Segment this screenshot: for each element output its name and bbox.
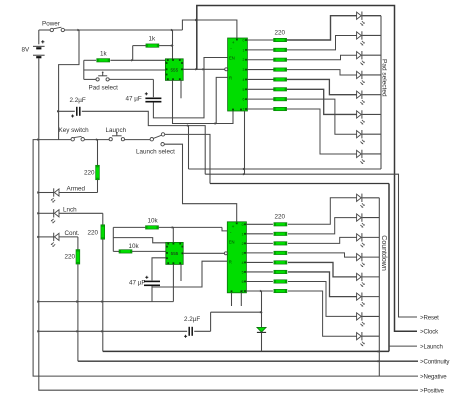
svg-text:5: 5 (242, 88, 244, 92)
wire continuity line (78, 360, 418, 362)
LED D12 countdown indicator (357, 194, 362, 201)
wire to pad LED 7 (287, 99, 357, 134)
wire 555 U3 output to 4017 U4 clock (183, 252, 225, 254)
LED D5 pad select indicator (357, 91, 362, 98)
wire pad-select middle to 555 U1 trigger (84, 69, 166, 71)
switch S2 Pad select (push button) (84, 78, 96, 80)
wire 4017 U4 reset pin (152, 261, 227, 287)
resistor R22 220 (246, 242, 273, 244)
LED D17 countdown indicator (357, 293, 362, 300)
svg-text:4: 4 (242, 78, 244, 82)
LED D19 countdown indicator (357, 333, 362, 340)
svg-text:Cont.: Cont. (65, 230, 80, 237)
LED D13 countdown indicator (357, 214, 362, 221)
svg-text:Pad selected: Pad selected (380, 59, 387, 97)
wire launch return line to countdown box (103, 350, 389, 352)
svg-text:R: R (229, 260, 232, 265)
svg-text:Launch select: Launch select (136, 149, 175, 156)
svg-text:47 µF: 47 µF (126, 96, 142, 103)
svg-text:2: 2 (242, 242, 244, 246)
svg-text:Armed: Armed (67, 186, 86, 193)
wire R2 left down to R1 wire (132, 46, 134, 61)
LED D6 pad select indicator (357, 111, 362, 118)
svg-text:220: 220 (65, 254, 76, 261)
wire C4 line (39, 330, 187, 332)
wire LED cathode to bus (362, 296, 379, 298)
wire LED cathode to bus (362, 15, 381, 17)
svg-text:Power: Power (42, 21, 60, 28)
svg-text:Key switch: Key switch (59, 127, 90, 134)
wire LED cathode to bus (362, 153, 381, 155)
wire negative rail (outer) (33, 140, 418, 377)
wire launch output branch (389, 345, 417, 347)
svg-text:555: 555 (170, 68, 178, 73)
LED D15 countdown indicator (357, 254, 362, 261)
wire 4017 U4 clock bubble (224, 252, 227, 255)
svg-text:3: 3 (242, 251, 244, 255)
resistor R13 220 (247, 69, 273, 71)
svg-text:10k: 10k (148, 218, 159, 225)
svg-text:+: + (232, 225, 235, 230)
wire from C4 node to diode (211, 311, 262, 313)
wire 4017 U2 clock bubble (225, 68, 228, 71)
IC U2 4017 decade counter (228, 38, 248, 111)
resistor R23 220 (246, 252, 273, 254)
wire positive rail (39, 140, 418, 391)
svg-text:Pad select: Pad select (89, 85, 119, 92)
wire pad cathode return line (189, 168, 382, 170)
svg-text:10k: 10k (129, 243, 140, 250)
diode D20 green (zener indicator) (261, 291, 263, 327)
svg-text:>Continuity: >Continuity (420, 359, 450, 366)
svg-text:Lnch: Lnch (63, 207, 77, 214)
svg-text:0: 0 (242, 223, 244, 227)
wire LED cathode to bus (362, 74, 381, 76)
wire to pad LED 4 (287, 70, 357, 75)
wire power branch down-left to key switch feed (59, 30, 79, 140)
wire power rail to 4017 U2 Vcc (182, 20, 237, 38)
svg-text:>Launch: >Launch (420, 343, 443, 350)
wire power switch to rails (65, 29, 183, 31)
LED D7 pad select indicator (357, 131, 362, 138)
svg-text:2.2µF: 2.2µF (70, 97, 86, 104)
svg-text:>Negative: >Negative (420, 373, 447, 380)
wire launch select upper throw to launch bus (165, 134, 210, 183)
wire to countdown LED 4 (288, 253, 357, 257)
svg-text:1k: 1k (149, 36, 157, 43)
svg-text:555: 555 (171, 251, 179, 256)
wire to pad LED 6 (287, 89, 357, 114)
wire pad select to 47uF C2 (109, 78, 153, 80)
wire to pad LED 3 (287, 55, 357, 60)
IC U4 4017 decade counter (227, 222, 246, 293)
wire 555 U1 output to 4017 U2 clock (183, 68, 225, 70)
wire ground line (bottom-left) (39, 301, 174, 303)
wire pad return riser (188, 126, 190, 169)
wire LED cathode to bus (362, 54, 381, 56)
svg-text:EN: EN (229, 56, 235, 61)
wire to countdown LED 1 (288, 198, 357, 225)
svg-text:47 µF: 47 µF (129, 280, 145, 287)
wire to countdown LED 7 (288, 281, 357, 316)
wire mid line to 555 U3 (113, 238, 166, 243)
wire LED cathode to bus (362, 133, 381, 135)
resistor R16 220 (247, 98, 273, 100)
wire C2 bottom U-route up to 4017 U2 enable (153, 58, 227, 118)
svg-text:R: R (229, 76, 232, 81)
wire to countdown LED 3 (288, 237, 357, 243)
wire 10k bus left vertical (112, 227, 114, 251)
wire to countdown LED 2 (288, 218, 357, 234)
svg-text:EN: EN (229, 239, 235, 244)
resistor R24 220 (246, 261, 273, 263)
battery B1 8V (38, 30, 40, 44)
resistor R27 220 (246, 290, 273, 292)
wire 4017 U2 reset pin down to ground line (216, 77, 227, 123)
wire 555 U1 ground pin down to 4017 U2 bottom pin (173, 80, 234, 123)
svg-text:220: 220 (275, 214, 286, 221)
op... timer U1 555 (165, 59, 183, 81)
resistor R21 220 (246, 233, 273, 235)
svg-text:2.2µF: 2.2µF (184, 316, 200, 323)
svg-text:>Positive: >Positive (420, 388, 445, 395)
resistor R20 220 (246, 223, 273, 225)
resistor R25 220 (246, 271, 273, 273)
wire LED cathode to bus (362, 236, 379, 238)
svg-text:Countdown: Countdown (380, 235, 387, 271)
svg-text:220: 220 (275, 30, 286, 37)
wire countdown box top (launch bus) (210, 183, 389, 185)
wire clock bus from 555 output to top and right side (197, 6, 417, 332)
resistor R14 220 (247, 78, 273, 80)
resistor R12 220 (247, 59, 273, 61)
svg-text:220: 220 (88, 230, 99, 237)
resistor R10 220 (247, 39, 273, 41)
LED D16 countdown indicator (357, 273, 362, 280)
wire 4017 U4 bottom stubs (231, 293, 233, 306)
wire C1 right to reset bus (82, 111, 205, 174)
wire LED cathode to bus (362, 217, 379, 219)
wire launch select lower throw to 4017 U4 Vcc (164, 144, 236, 222)
wire LED cathode to bus (362, 276, 379, 278)
wire 555 U3 ground to bottom line (172, 264, 174, 301)
wire LED cathode to bus (362, 256, 379, 258)
LED D14 countdown indicator (357, 234, 362, 241)
resistor R26 220 (246, 280, 273, 282)
wire 555 U3 pin5 stub (180, 264, 182, 281)
svg-text:2: 2 (242, 58, 244, 62)
wire to pad LED 1 (287, 16, 357, 40)
wire LED cathode to bus (362, 34, 381, 36)
wire LED cathode to bus (362, 335, 379, 337)
LED D3 pad select indicator (357, 52, 362, 59)
svg-text:6: 6 (242, 98, 244, 102)
wire 10k bus to 555 U3 Vcc (172, 227, 174, 242)
LED D4 pad select indicator (357, 71, 362, 78)
svg-text:3: 3 (242, 68, 244, 72)
wire 4017 U2 bottom pin to buses (244, 111, 246, 174)
svg-text:>Clock: >Clock (420, 329, 439, 336)
svg-text:1k: 1k (100, 51, 108, 58)
wire to countdown LED 6 (288, 272, 357, 297)
LED D18 countdown indicator (357, 313, 362, 320)
svg-text:>Reset: >Reset (420, 314, 439, 321)
wire reset bus line y2 (205, 174, 417, 317)
LED D8 pad select indicator (357, 150, 362, 157)
wire pad-select loop left vertical (83, 60, 85, 79)
wire 555 U1 pin5 stub (180, 80, 182, 98)
wire pad return line y1 (189, 168, 382, 170)
wire 555 U3 left pin to C3 (152, 258, 166, 281)
svg-text:+: + (232, 41, 235, 46)
svg-text:220: 220 (84, 170, 95, 177)
wire to countdown LED 5 (288, 262, 357, 276)
resistor R11 220 (247, 49, 273, 51)
svg-text:6: 6 (242, 280, 244, 284)
wire countdown box right edge (launch) (388, 184, 390, 352)
wire to countdown LED 8 (288, 291, 357, 336)
wire battery negative down to key switch node (38, 58, 40, 139)
LED D1 pad select indicator (357, 12, 362, 19)
wire to pad LED 8 (287, 109, 357, 154)
wire LED cathode to bus (362, 197, 379, 199)
svg-text:0: 0 (242, 39, 244, 43)
svg-text:1: 1 (242, 48, 244, 52)
svg-text:1: 1 (242, 232, 244, 236)
svg-text:5: 5 (242, 270, 244, 274)
wire to pad LED 5 (287, 79, 357, 94)
timer U3 555 (166, 242, 183, 264)
resistor R15 220 (247, 88, 273, 90)
svg-text:7: 7 (242, 108, 244, 112)
wire countdown LED cathode bus (378, 198, 380, 376)
wire to pad LED 2 (287, 35, 357, 49)
wire LED cathode to bus (362, 315, 379, 317)
wire pad LED cathode bus (380, 16, 382, 169)
wire to 4017 U4 top-left pin (222, 227, 227, 231)
svg-text:8V: 8V (22, 47, 31, 54)
svg-text:4: 4 (242, 261, 244, 265)
wire LED cathode to bus (362, 113, 381, 115)
wire C3 bottom to ground line (151, 286, 153, 302)
resistor R17 220 (247, 108, 273, 110)
LED D2 pad select indicator (357, 32, 362, 39)
wire power rail down to 555 U1 Vcc (172, 30, 174, 59)
wire LED cathode to bus (362, 94, 381, 96)
